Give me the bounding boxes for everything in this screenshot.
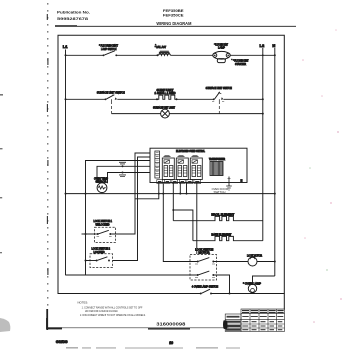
lock switch S1 dashed box (94, 219, 116, 242)
transformer T1 (209, 157, 225, 175)
svg-text:SURFACE UNIT SWITCH: SURFACE UNIT SWITCH (97, 91, 125, 95)
svg-text:2. DISCONNECT WIRE B TO NOT OP: 2. DISCONNECT WIRE B TO NOT OPERATE ON A… (80, 313, 146, 317)
svg-text:* BALLAST: * BALLAST (155, 45, 167, 49)
svg-text:4 OVEN LAMP SWITCH: 4 OVEN LAMP SWITCH (192, 284, 218, 288)
footer faint marks (66, 347, 240, 348)
svg-text:SURFACE UNIT LIGHT: SURFACE UNIT LIGHT (153, 105, 175, 109)
svg-text:LOCKED: LOCKED (94, 250, 105, 254)
wire bake right (236, 240, 263, 242)
junction dot N row1 (274, 54, 276, 56)
junction dot pin A (158, 193, 160, 195)
wire stub into lock switch 2 (86, 260, 97, 262)
wire (224, 98, 263, 100)
svg-text:MOTOR: MOTOR (199, 250, 210, 254)
surface unit element (155, 88, 177, 100)
wire (66, 54, 104, 56)
wire sensor lead 2 (108, 173, 151, 184)
junction dot L2 row2 (262, 98, 264, 100)
svg-text:UNLOCKED: UNLOCKED (96, 222, 110, 226)
ground chassis (226, 177, 232, 191)
junction dot ballast left (157, 54, 159, 56)
scan blob table corner (223, 320, 228, 329)
junction dot L1 row1 (65, 54, 67, 56)
scan color noise right margin (302, 29, 342, 323)
bus wire N (274, 48, 276, 276)
scan blob bottom left corner (0, 318, 10, 332)
header publication number (57, 10, 90, 21)
junction dot drop C (162, 193, 164, 195)
scan streak left edge (47, 3, 48, 330)
svg-text:1. CONNECT RANGE WITH ALL CONT: 1. CONNECT RANGE WITH ALL CONTROLS SET T… (82, 306, 143, 310)
wire lower latch to lamp branch (214, 275, 230, 294)
label wire code 1 (119, 162, 126, 164)
surface unit switch right (206, 86, 232, 113)
svg-text:TRANSFORMER: TRANSFORMER (209, 157, 225, 161)
surface unit signal light (153, 105, 175, 118)
svg-text:5995287678: 5995287678 (57, 16, 89, 21)
wire L1 to lower latch contact (66, 274, 198, 276)
oven lamp switch (192, 284, 218, 294)
junction dot sensor lead 2 (122, 172, 124, 174)
scan smudge segment B (148, 328, 190, 330)
junction dot element right (176, 98, 178, 100)
svg-text:L2: L2 (260, 43, 265, 48)
scan smudge bottom line (60, 327, 229, 329)
wire EOC drop to lock relay (163, 183, 197, 262)
relay K2 (176, 155, 188, 179)
junction dot neutral at latch riser (85, 193, 87, 195)
svg-text:06/96: 06/96 (56, 340, 67, 344)
fluorescent starter (217, 59, 248, 66)
junction dot pin B (179, 193, 181, 195)
wire jog to bake riser (173, 210, 193, 241)
junction dot latch riser at S2 (85, 260, 87, 262)
lock switch S2 dashed box (90, 247, 113, 268)
wire (171, 54, 214, 56)
notes block (78, 300, 147, 316)
door lock motor (247, 253, 262, 266)
junction dot L1 row2 (65, 98, 67, 100)
oven temp sensor RTD (94, 176, 108, 192)
wire (66, 98, 106, 100)
svg-text:FEF350CE: FEF350CE (163, 13, 184, 18)
junction dot jog (172, 209, 174, 211)
svg-text:316000098: 316000098 (156, 321, 185, 326)
wire EOC drop pin A with jog (135, 183, 159, 199)
svg-text:SURFACE UNIT SWITCH: SURFACE UNIT SWITCH (206, 86, 232, 90)
scan smudge segment A (48, 327, 62, 329)
header rule (55, 25, 296, 27)
fluorescent lamp (213, 42, 230, 60)
wire broil left (173, 220, 213, 222)
svg-text:N: N (272, 43, 275, 48)
wire bake left (193, 240, 213, 242)
wire (169, 113, 262, 115)
wire (230, 54, 275, 56)
label wire code 2 (119, 175, 126, 177)
svg-text:BAKE ELEMENT: BAKE ELEMENT (211, 232, 231, 236)
svg-text:1 SMALL 1 MED: 1 SMALL 1 MED (155, 91, 176, 95)
wire lock relay to motor (214, 261, 248, 263)
wire EOC drop to latch box (196, 183, 198, 255)
junction dot N motor row (274, 261, 276, 263)
wire sensor lead 1 (97, 166, 150, 183)
wire broil right (236, 220, 263, 222)
bus wire L2 (262, 48, 264, 241)
diagram frame (58, 35, 284, 293)
broil element (211, 212, 235, 220)
wire EOC drop pin B (179, 183, 181, 194)
svg-text:LAMP SWITCH: LAMP SWITCH (101, 47, 117, 51)
wire motor to N (257, 261, 275, 263)
wire EOC pin to door lock switch 1 (116, 153, 151, 234)
svg-text:LAMP: LAMP (218, 46, 225, 50)
wire stub into lock switch 1 (82, 233, 98, 235)
surface unit switch (97, 91, 125, 114)
wire lamp return to N (253, 276, 275, 284)
svg-text:ELECTRONIC OVEN CONTROL: ELECTRONIC OVEN CONTROL (176, 149, 205, 153)
svg-text:L1: L1 (63, 44, 68, 49)
table header text (227, 316, 240, 318)
terminal label boxes (157, 180, 201, 184)
relay K3 (190, 155, 202, 179)
junction dot lamp branch (229, 293, 231, 295)
svg-text:WIRING DIAGRAM: WIRING DIAGRAM (156, 21, 192, 26)
wire EOC pin to latch common (86, 161, 151, 276)
junction dot neutral at L1 (65, 193, 67, 195)
junction dot neutral at N (274, 193, 276, 195)
wire (117, 98, 157, 100)
left margin ticks (0, 94, 3, 253)
frame right extension to table (283, 294, 285, 310)
oven lamp (243, 281, 261, 292)
svg-text:Publication No.: Publication No. (57, 10, 90, 15)
wire (117, 54, 158, 56)
junction dot L2 row1 (262, 54, 264, 56)
wire (177, 98, 214, 100)
junction dot L2 light row (262, 113, 264, 115)
relay K1 (162, 155, 174, 179)
junction dot sensor lead 1 (122, 165, 124, 167)
junction dot element left (156, 98, 158, 100)
wire lock switch 1 out (111, 233, 135, 235)
junction dot latch riser at S1 (85, 233, 87, 235)
table left column dark cells (226, 322, 241, 330)
motor lock switch dashed box (190, 247, 217, 280)
table cell marks (242, 317, 283, 330)
fluorescent lamp switch (99, 43, 118, 56)
header model numbers (156, 8, 192, 26)
wire neutral run (66, 193, 275, 195)
ballast coil (155, 44, 171, 56)
svg-text:STARTER: STARTER (235, 62, 246, 66)
wire EOC drop broil (172, 183, 174, 221)
svg-text:NOTES:: NOTES: (78, 300, 89, 304)
connector P1 (155, 151, 160, 178)
wiring code table (225, 309, 284, 331)
wire EOC pin to door lock switch 2 (113, 157, 151, 261)
svg-text:N: N (241, 179, 243, 183)
bus wire L1 (65, 50, 67, 276)
svg-text:BROIL ELEMENT: BROIL ELEMENT (211, 212, 234, 216)
wire (112, 113, 161, 115)
label oven door switch (212, 187, 229, 194)
svg-text:10: 10 (169, 341, 173, 345)
bake element (211, 232, 235, 240)
junction dot drop D (186, 193, 188, 195)
svg-text:LOCK MOTOR: LOCK MOTOR (247, 253, 262, 257)
svg-text:AND OVEN DOOR CLOSED AND UNLOC: AND OVEN DOOR CLOSED AND UNLOCKED. (85, 309, 118, 313)
electronic oven control box (150, 148, 247, 182)
wire EOC drop neutral pin (186, 183, 188, 194)
